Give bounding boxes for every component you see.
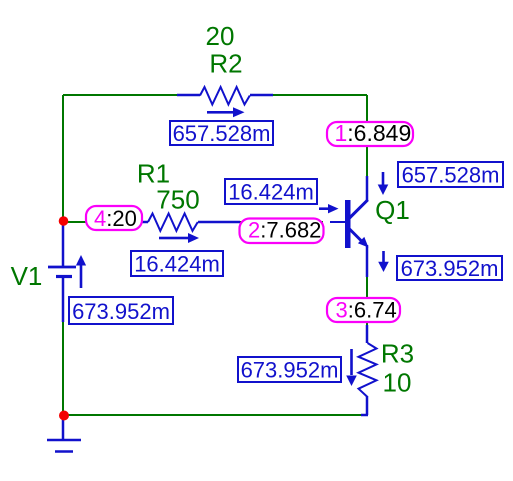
battery V1 — [48, 221, 76, 322]
svg-text:R3: R3 — [381, 339, 414, 369]
current arrow emitter (down) — [378, 251, 389, 272]
current arrow for R3 (down) — [346, 349, 357, 386]
wire top left segment — [63, 94, 178, 96]
current value box 16.424m (R1, lower) — [131, 251, 223, 277]
resistor R2 — [177, 87, 273, 105]
wire middle row R1 to base — [235, 221, 323, 223]
wire right vertical collector net — [366, 95, 368, 176]
node junction dot (ground) — [59, 411, 69, 421]
wire top right segment — [272, 94, 367, 96]
svg-text:1:6.849: 1:6.849 — [335, 120, 412, 146]
svg-text:657.528m: 657.528m — [402, 163, 500, 188]
node 4 voltage label 4:20 — [86, 206, 142, 231]
node 3 voltage label 3:6.74 — [327, 298, 400, 323]
svg-text:2:7.682: 2:7.682 — [248, 218, 321, 243]
svg-text:673.952m: 673.952m — [72, 299, 170, 324]
svg-text:Q1: Q1 — [375, 195, 410, 225]
current value box 16.424m (base, upper) — [225, 179, 317, 205]
wire emitter net to R3 — [366, 276, 368, 326]
current value box 673.952m (battery) — [69, 297, 173, 324]
wire left vertical (V+ rail down to battery) — [62, 95, 64, 221]
svg-text:750: 750 — [156, 185, 199, 215]
svg-text:V1: V1 — [11, 261, 43, 291]
svg-text:673.952m: 673.952m — [401, 256, 499, 281]
current arrow collector (down) — [378, 172, 389, 195]
svg-text:20: 20 — [206, 21, 235, 51]
current arrow battery (up) — [76, 255, 86, 288]
svg-text:673.952m: 673.952m — [241, 358, 339, 383]
resistor R1 — [142, 214, 240, 231]
current arrow into base — [319, 204, 339, 213]
wire bottom rail — [63, 414, 362, 416]
current arrow for R1 — [159, 233, 199, 243]
svg-text:16.424m: 16.424m — [134, 252, 220, 277]
resistor R3 — [359, 325, 377, 415]
current arrow for R2 — [207, 107, 245, 117]
current value box 657.528m (collector) — [398, 162, 503, 188]
svg-text:3:6.74: 3:6.74 — [336, 298, 397, 323]
svg-text:R2: R2 — [209, 49, 242, 79]
node 1 voltage label 1:6.849 — [327, 120, 413, 146]
current value box 673.952m (emitter) — [397, 256, 502, 281]
transistor Q1 — [345, 200, 369, 248]
svg-text:657.528m: 657.528m — [173, 121, 271, 146]
current value box 673.952m (R3) — [238, 357, 341, 383]
ground — [47, 415, 81, 452]
svg-text:10: 10 — [383, 368, 412, 398]
node 2 voltage label 2:7.682 — [240, 218, 324, 244]
current value box 657.528m (R2) — [170, 121, 273, 146]
node junction dot (node 4 / battery +) — [59, 216, 69, 226]
wire left vertical below battery to bottom rail — [62, 322, 64, 415]
svg-text:16.424m: 16.424m — [228, 180, 314, 205]
svg-text:4:20: 4:20 — [94, 206, 137, 231]
wire middle row node4 to R1 — [63, 221, 143, 223]
